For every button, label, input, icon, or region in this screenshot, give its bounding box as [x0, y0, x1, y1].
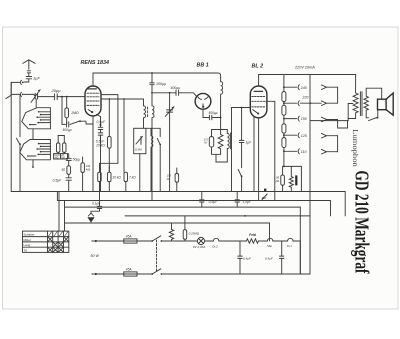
svg-text:45A: 45A [126, 235, 132, 239]
svg-text:6V 0,05A: 6V 0,05A [193, 245, 205, 249]
svg-text:1µF: 1µF [33, 76, 41, 81]
svg-text:NSp: NSp [267, 244, 273, 248]
wire detector vertical to load [220, 118, 222, 130]
tube BB1 internals [197, 96, 209, 108]
IF transformer primary coil [144, 99, 146, 128]
svg-text:Mittel: Mittel [24, 238, 32, 242]
svg-text:220: 220 [301, 96, 308, 100]
heater return corner [299, 241, 301, 274]
svg-text:125: 125 [301, 134, 307, 138]
wire primary bottom left [310, 119, 348, 121]
mains switch pole 1 [151, 236, 195, 242]
resistor 7k row [124, 172, 128, 191]
svg-text:20µµ: 20µµ [51, 88, 62, 93]
switch wave band [157, 128, 161, 191]
plug P4 [321, 133, 337, 138]
detector coupling coil [221, 82, 223, 118]
fuse F1 [124, 239, 152, 243]
svg-text:Lumophon: Lumophon [351, 129, 360, 167]
wire resistors top bar [58, 135, 64, 137]
IF transformer secondary coil [152, 93, 154, 201]
choke Dr2 [211, 238, 246, 241]
coupling cap 1uF [239, 108, 244, 168]
wire L1 to L2 [32, 129, 34, 140]
bus C [65, 201, 301, 208]
node D [244, 215, 246, 217]
svg-text:TA: TA [24, 248, 28, 252]
coil block L2 [20, 140, 51, 160]
node screen [108, 98, 110, 100]
capacitor 0.5uF mains b [280, 241, 284, 274]
svg-text:1,5µF: 1,5µF [242, 200, 251, 204]
svg-text:BL 2: BL 2 [252, 63, 264, 69]
tube BL2 internals [252, 91, 267, 114]
field coil Feld [246, 239, 266, 243]
tap 150 [283, 116, 299, 121]
bus B [57, 192, 330, 201]
resistor 20k [63, 136, 66, 154]
node trimmer top [169, 92, 171, 94]
svg-text:0,5µF: 0,5µF [265, 257, 273, 261]
wire jack A1 to left rail [11, 82, 19, 94]
anode bus to detector [93, 73, 221, 82]
svg-text:400µµ: 400µµ [171, 86, 181, 90]
resistor 50 [67, 166, 71, 178]
anode lead RENS up [92, 73, 94, 86]
ladder resistor 2 [282, 105, 286, 115]
ladder wire bottom [283, 148, 285, 167]
wire L2 stub down [32, 160, 34, 168]
voltage ladder feed [283, 75, 285, 92]
resistor 10k 40k [81, 157, 85, 192]
tap 125 [283, 133, 299, 138]
secondary bottom to switch [366, 110, 368, 118]
screen lead BL2 [267, 101, 275, 200]
resistor 10k row [108, 167, 112, 192]
switch grid bias [238, 169, 242, 191]
tube BB1 envelope [195, 93, 211, 109]
wire transformer tap loop [348, 104, 353, 119]
wire antenna to jack A1 [24, 81, 29, 83]
svg-text:0,25MΩ: 0,25MΩ [189, 231, 200, 235]
filter network top wire [284, 166, 302, 191]
wire branch down to 7k resistor [123, 99, 125, 172]
screen lead RENS right [100, 95, 118, 173]
load bracket top [212, 130, 221, 137]
coil block L1 [22, 108, 51, 129]
ladder wire [283, 133, 285, 138]
svg-text:7 kΩ: 7 kΩ [129, 175, 136, 179]
value box 0.1M 20M [54, 154, 68, 159]
choke Dr1 [286, 238, 300, 241]
band switch S1 [16, 138, 21, 145]
cathode lead BB1 down [202, 109, 204, 117]
wire trimmer into coil block [35, 99, 37, 108]
svg-text:150: 150 [301, 117, 307, 121]
node grid junction [241, 107, 243, 109]
svg-text:100µµ: 100µµ [156, 82, 166, 86]
long right vertical [309, 75, 311, 275]
svg-text:0,5µF: 0,5µF [53, 179, 63, 183]
IF transformer core [147, 107, 149, 117]
wire detector line [152, 92, 176, 94]
trimmer capacitor antenna [31, 90, 40, 103]
svg-text:GD 210 Markgraf: GD 210 Markgraf [351, 171, 373, 275]
vertical x65 to table [64, 223, 66, 231]
wire tube lower pin [97, 115, 101, 117]
tube RENS internals [87, 89, 99, 113]
potentiometer box [134, 128, 146, 153]
electrolytic bar [295, 175, 297, 185]
switch gang link [156, 240, 158, 272]
wire left rail to jack A2 [11, 93, 19, 95]
mains bus 220V [259, 74, 356, 76]
output transformer primary [348, 75, 358, 119]
cathode leads BL2 [254, 117, 259, 200]
svg-text:10 kΩ: 10 kΩ [112, 175, 121, 179]
svg-text:240: 240 [300, 86, 307, 90]
svg-text:50 W: 50 W [91, 254, 100, 258]
jack A2 [20, 92, 23, 96]
resistor 0.25M box [183, 216, 187, 241]
svg-text:110: 110 [301, 150, 307, 154]
capacitor 0.5uF mains a [238, 241, 242, 274]
detector coil [221, 130, 231, 163]
svg-text:45A: 45A [126, 268, 132, 272]
svg-text:1MΩ: 1MΩ [71, 111, 79, 115]
capacitor 0.5uF bus [200, 192, 204, 208]
plug P3 [321, 117, 337, 122]
svg-text:50: 50 [62, 168, 66, 172]
capacitor 100uuF [150, 73, 154, 93]
capacitor 0.5uF lower [98, 133, 103, 192]
resistor zigzag filter [289, 166, 293, 191]
plug link P1P2 [337, 87, 339, 103]
svg-text:BB 1: BB 1 [197, 62, 209, 68]
svg-text:MΩ: MΩ [61, 157, 65, 160]
svg-text:40k: 40k [86, 168, 91, 172]
grid2 lead RENS to IF coil [101, 98, 144, 100]
antenna [23, 60, 35, 69]
mains switch pole 2 [151, 269, 162, 275]
capacitor 20uuF [55, 94, 58, 100]
node grid junction [66, 96, 68, 98]
resistor 1 Mohm [65, 97, 69, 125]
output transformer secondary [364, 96, 368, 110]
tap 110 [283, 149, 299, 154]
capacitor antenna 1uF [26, 77, 31, 83]
ground [87, 213, 94, 223]
node cathode [100, 124, 102, 126]
trimmer across IF [165, 93, 174, 192]
bus E drop [269, 223, 271, 241]
ladder resistor 3 [282, 124, 286, 133]
tube BL2 envelope [250, 86, 267, 118]
svg-text:220V 20mA: 220V 20mA [294, 66, 315, 70]
svg-text:MΩ: MΩ [55, 157, 59, 160]
right rail drop [331, 192, 346, 216]
bias node blob [263, 189, 267, 200]
transformer core [360, 92, 362, 116]
node detector vertical [220, 117, 222, 119]
choke NS [267, 238, 286, 241]
wire pot to bus [139, 154, 141, 192]
mains plug pin 2 [92, 273, 97, 275]
plug P1 [321, 85, 337, 90]
resistor 100k [175, 168, 179, 192]
svg-text:20 kΩ: 20 kΩ [95, 144, 105, 148]
wire trimmer to C 20pF [38, 96, 55, 98]
ladder wire [283, 115, 285, 124]
svg-text:0,5µF: 0,5µF [243, 257, 251, 261]
pilot lamp [196, 237, 212, 244]
svg-text:Dr.2: Dr.2 [212, 244, 218, 248]
ladder wire [283, 102, 285, 106]
capacitor 50uuF [66, 154, 71, 166]
speaker [378, 93, 394, 115]
ladder resistor 1 [282, 92, 286, 102]
resistor screen 10k [108, 99, 112, 172]
anode lead BL2 [258, 75, 260, 87]
svg-text:kΩ: kΩ [167, 177, 170, 181]
cathode bypass cap 0.5uF [98, 117, 103, 133]
plug link P4P5 [337, 136, 339, 152]
node detector line [151, 92, 153, 94]
plug P5 [321, 149, 337, 154]
svg-text:Lang: Lang [24, 243, 31, 247]
svg-text:0,5M: 0,5M [135, 148, 142, 152]
grid wire BL2 [232, 108, 251, 192]
mains bottom line [97, 273, 300, 275]
resistor 0.3M box [209, 137, 213, 155]
second rail wire lower [19, 145, 21, 192]
bus E [65, 207, 270, 223]
svg-text:500µµ: 500µµ [209, 111, 218, 115]
svg-text:Dr.1: Dr.1 [287, 244, 292, 248]
bus A ground rail [11, 191, 345, 193]
spark gap arrester [27, 71, 30, 76]
node on grid2 lead [123, 98, 125, 100]
resistor 50k bleeder [281, 166, 285, 191]
reaction coil [151, 128, 153, 191]
ladder resistor 4 [282, 138, 286, 148]
wire coil stub [146, 127, 160, 129]
svg-text:0,1µF: 0,1µF [92, 202, 101, 206]
wire C20 to grid RENS [57, 96, 85, 98]
capacitor 1.5uF bus [235, 192, 239, 208]
svg-text:0,5µF: 0,5µF [209, 200, 218, 204]
wire plug P3 to transformer [338, 120, 348, 129]
speaker switch [369, 110, 379, 121]
svg-text:Feld: Feld [249, 233, 257, 237]
switch table [23, 231, 69, 252]
load bracket bottom [212, 154, 228, 162]
tap 240 [283, 85, 299, 90]
wire stub left edge [6, 95, 11, 98]
wire jack A2 to trimmer [24, 94, 35, 95]
cathode lead RENS down [92, 116, 94, 192]
svg-text:500µµ: 500µµ [63, 128, 72, 132]
node 500uu [61, 96, 63, 98]
jack A1 [20, 80, 23, 84]
plug P2 [321, 101, 337, 106]
secondary top to speaker [366, 88, 382, 99]
tap 220 [283, 101, 321, 106]
svg-text:50µµ: 50µµ [73, 158, 81, 162]
switch with cap 500uuF [62, 97, 93, 127]
capacitor 400uuF [176, 90, 196, 96]
arrow marker chassis [262, 194, 267, 200]
svg-text:RENS 1834: RENS 1834 [81, 60, 109, 66]
resistor zigzag det [218, 130, 223, 155]
left rail wire down [10, 82, 12, 191]
second rail wire [19, 94, 21, 136]
resistor row left [98, 172, 102, 191]
node ladder bottom [283, 166, 285, 168]
vertical x59 to table [58, 192, 60, 231]
resistor 0.25M zigzag [169, 223, 173, 241]
bus C right drop [299, 207, 301, 274]
svg-text:Schalter: Schalter [24, 232, 35, 236]
resistor 0.1M [57, 136, 60, 154]
node anode bus [151, 72, 153, 74]
bus D [125, 215, 310, 217]
tube RENS 1834 envelope [85, 86, 101, 116]
grounding capacitor 0.1uF [91, 192, 102, 214]
capacitor 500uuF [203, 115, 221, 120]
capacitor 0.5uF cathode [66, 178, 71, 192]
fuse F2 [124, 272, 137, 276]
svg-text:0,5µF: 0,5µF [97, 120, 106, 124]
bottom line right join [300, 273, 310, 275]
mains plug pin 1 [92, 240, 124, 242]
